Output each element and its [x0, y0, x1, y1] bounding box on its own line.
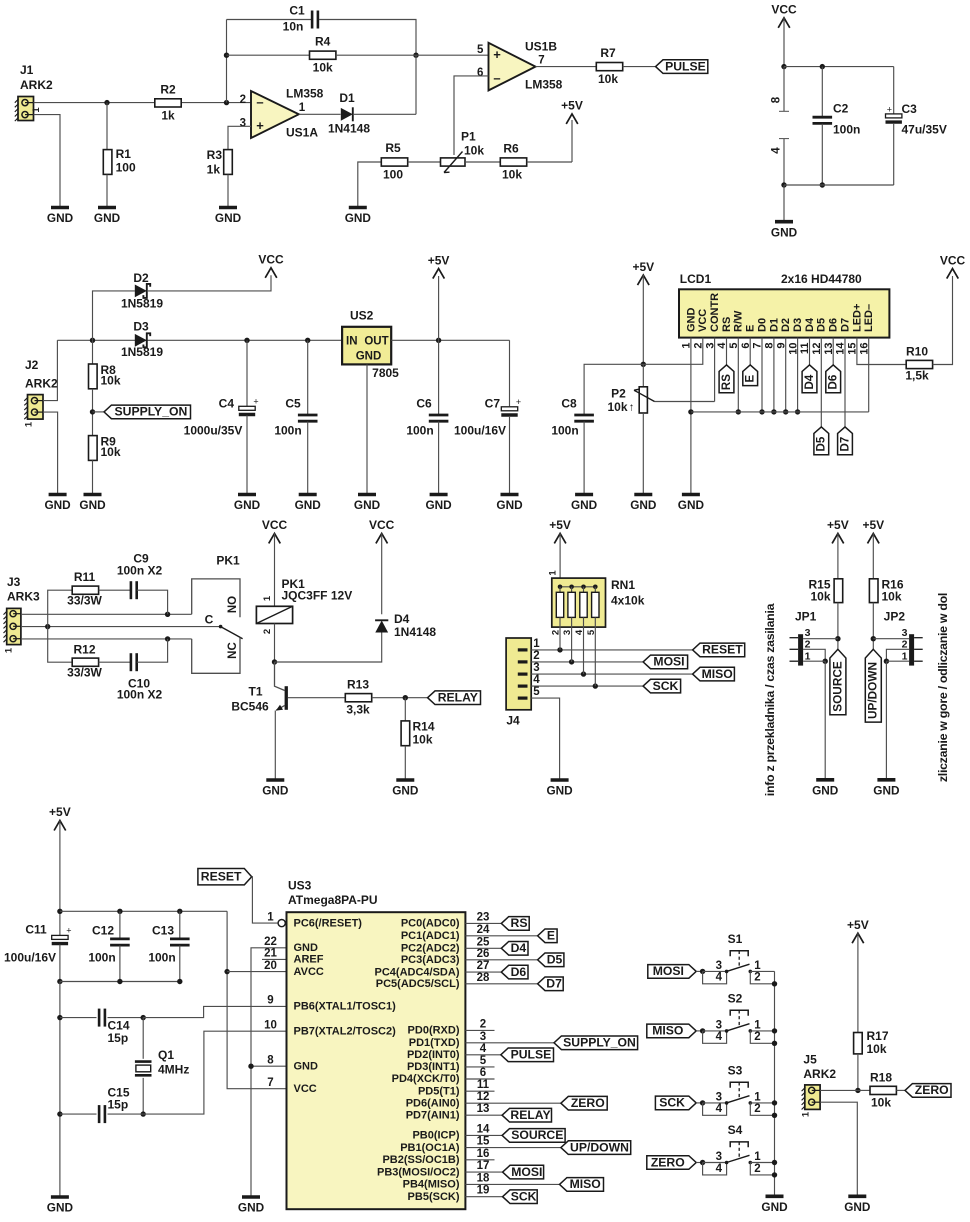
junction ZERO node — [855, 1088, 860, 1093]
ground — [238, 1197, 265, 1215]
junction R/W bus — [736, 409, 741, 414]
junction LCD VCC node — [641, 362, 646, 367]
wire pin8 segment — [783, 67, 785, 112]
wire R15 to SOURCE node — [837, 603, 839, 650]
wire LCD pin14 D7 — [844, 338, 846, 427]
svg-text:D1: D1 — [339, 91, 355, 105]
wire LCD pin7 D0 — [761, 338, 763, 412]
svg-text:LM358: LM358 — [525, 78, 563, 92]
net flag E (LCD) — [743, 365, 758, 386]
net flag RS (LCD) — [719, 365, 734, 393]
net flag D5 (MCU) — [538, 953, 564, 967]
power +5V — [561, 99, 583, 124]
svg-text:SOURCE: SOURCE — [511, 1128, 563, 1142]
junction R1 top — [104, 100, 109, 105]
junction C5 — [305, 338, 310, 343]
wire JP2 pin3 — [873, 638, 909, 640]
svg-text:2: 2 — [805, 638, 811, 650]
ground — [44, 495, 71, 513]
svg-text:1000u/35V: 1000u/35V — [184, 424, 243, 438]
power +5V (RN1) — [549, 518, 571, 543]
svg-text:15: 15 — [477, 1136, 490, 1148]
svg-text:+: + — [66, 926, 71, 936]
svg-text:27: 27 — [477, 960, 490, 972]
svg-text:1: 1 — [754, 1091, 761, 1103]
capacitor C2 — [813, 117, 833, 123]
capacitor C10 — [131, 653, 137, 671]
wire ZERO to S4 — [696, 1162, 702, 1164]
svg-text:100n X2: 100n X2 — [117, 688, 163, 702]
power VCC (D4) — [369, 518, 395, 543]
svg-text:2: 2 — [533, 650, 539, 662]
svg-text:10k: 10k — [502, 168, 522, 182]
svg-text:23: 23 — [477, 911, 490, 923]
wire R4 right — [336, 54, 416, 56]
svg-text:GND: GND — [234, 498, 261, 512]
wire RN1 r3 down — [583, 617, 585, 674]
wire left vertical to GND — [59, 982, 61, 1198]
capacitor C14 — [99, 1009, 105, 1027]
net flag UP/DOWN — [865, 649, 881, 722]
svg-text:GND: GND — [215, 211, 242, 225]
svg-text:PULSE: PULSE — [511, 1048, 552, 1062]
wire pin27 — [465, 971, 501, 973]
svg-text:VCC: VCC — [697, 309, 709, 332]
wire +5V down — [642, 275, 644, 364]
svg-text:10k: 10k — [313, 61, 333, 75]
svg-text:+5V: +5V — [827, 518, 849, 532]
junction R4 left — [224, 53, 229, 58]
svg-text:2: 2 — [262, 629, 273, 634]
connector J5 — [802, 1085, 821, 1110]
wire RN1 r1 down — [559, 617, 561, 650]
svg-text:5: 5 — [477, 44, 484, 56]
svg-text:4: 4 — [533, 674, 540, 686]
junction D1 bus — [771, 409, 776, 414]
svg-text:PD2(INT0): PD2(INT0) — [407, 1049, 460, 1061]
svg-text:GND: GND — [685, 308, 697, 333]
svg-text:GND: GND — [425, 498, 452, 512]
svg-text:5: 5 — [480, 1055, 487, 1067]
wire VCC to D4 — [381, 533, 383, 614]
wire C8 connection — [584, 364, 643, 415]
svg-text:2: 2 — [754, 1031, 760, 1043]
svg-text:PD4(XCK/T0): PD4(XCK/T0) — [392, 1073, 460, 1085]
svg-text:C13: C13 — [152, 924, 174, 938]
wire J4 pin1 RESET — [531, 649, 692, 651]
wire C12 bottom — [119, 945, 121, 981]
junction bus S2b — [772, 1041, 777, 1046]
svg-text:1: 1 — [24, 421, 35, 427]
wire J2 pin1 up to rail — [43, 340, 57, 400]
svg-text:ZERO: ZERO — [915, 1083, 949, 1097]
net flag SUPPLY_ON — [104, 405, 191, 419]
wire C13 bottom — [179, 945, 181, 981]
wire D1 to feedback — [353, 113, 416, 115]
ground — [392, 780, 419, 798]
wire R18 to ZERO — [896, 1089, 905, 1091]
relay common contact — [219, 625, 223, 629]
svg-text:2: 2 — [902, 638, 908, 650]
net flag MOSI (J4) — [643, 655, 688, 669]
wire pin19 — [465, 1196, 502, 1198]
svg-text:GND: GND — [812, 783, 839, 797]
junction XTAL2 — [141, 1111, 146, 1116]
wire C7 bottom — [509, 416, 511, 495]
junction D2 bus — [783, 409, 788, 414]
svg-text:–: – — [493, 70, 500, 85]
junction D3 bus — [795, 409, 800, 414]
junction C9 right — [165, 612, 170, 617]
ground — [546, 780, 573, 798]
svg-text:E: E — [547, 929, 555, 943]
op-amp US1A — [251, 91, 299, 138]
svg-text:1: 1 — [533, 638, 540, 650]
svg-text:C11: C11 — [25, 923, 47, 937]
svg-text:6: 6 — [477, 67, 483, 79]
ground — [94, 208, 121, 226]
svg-text:2: 2 — [240, 94, 246, 106]
wire J1 pin2 to GND — [34, 115, 61, 208]
svg-text:VCC: VCC — [262, 518, 288, 532]
svg-text:Q1: Q1 — [158, 1048, 174, 1062]
svg-text:D0: D0 — [756, 318, 768, 332]
wire RN1 r4 down — [594, 617, 596, 686]
svg-text:GND: GND — [295, 498, 322, 512]
junction C2 top — [820, 64, 825, 69]
svg-text:J4: J4 — [506, 714, 520, 728]
svg-text:SCK: SCK — [653, 679, 679, 693]
svg-text:PC0(ADC0): PC0(ADC0) — [401, 918, 460, 930]
wire LCD pin16 LED- — [868, 338, 870, 412]
svg-text:LM358: LM358 — [286, 87, 324, 101]
svg-text:↑: ↑ — [629, 401, 635, 413]
svg-text:C8: C8 — [561, 397, 577, 411]
wire R8 to R9 — [92, 389, 94, 436]
voltage regulator US2 — [342, 327, 391, 365]
power +5V — [428, 253, 450, 278]
junction bus S1 — [772, 981, 777, 986]
svg-text:3: 3 — [716, 960, 722, 972]
capacitor C9 — [131, 581, 137, 599]
svg-text:R3: R3 — [207, 148, 223, 162]
svg-text:+: + — [256, 118, 264, 133]
svg-text:GND: GND — [761, 1200, 788, 1214]
svg-text:RELAY: RELAY — [438, 691, 478, 705]
svg-text:zliczanie w gore / odliczanie: zliczanie w gore / odliczanie w dol — [936, 593, 950, 782]
junction C2 bottom — [820, 182, 825, 187]
svg-text:+5V: +5V — [49, 805, 71, 819]
wire J1 pin1 to opamp pin2 — [34, 102, 252, 104]
svg-text:9: 9 — [267, 995, 273, 1007]
svg-text:J5: J5 — [803, 1053, 817, 1067]
svg-text:7805: 7805 — [372, 366, 399, 380]
resistor R16 — [869, 579, 878, 603]
wire C15 right — [108, 1113, 144, 1115]
wire opamp output to D1 — [299, 113, 341, 115]
wire to PB7 pin10 — [143, 1031, 286, 1114]
ground — [771, 222, 798, 240]
svg-text:PC2(ADC2): PC2(ADC2) — [401, 943, 460, 955]
wire base to R13 — [288, 697, 345, 699]
svg-text:GND: GND — [294, 942, 319, 954]
svg-text:10k: 10k — [101, 445, 121, 459]
svg-text:11: 11 — [477, 1079, 490, 1091]
svg-text:+: + — [516, 397, 521, 407]
svg-text:13: 13 — [477, 1103, 490, 1115]
wire J2 pin2 to GND — [43, 412, 58, 494]
switch S4 — [703, 1142, 775, 1175]
wire C6 bottom — [438, 422, 440, 495]
svg-text:R18: R18 — [870, 1070, 892, 1084]
svg-text:22: 22 — [264, 936, 277, 948]
svg-text:R6: R6 — [503, 142, 519, 156]
ground — [354, 495, 381, 513]
relay moving arm — [221, 627, 243, 639]
svg-text:RESET: RESET — [702, 643, 743, 657]
svg-text:15p: 15p — [108, 1098, 129, 1112]
svg-text:RESET: RESET — [201, 870, 242, 884]
wire MISO to S2 — [696, 1030, 702, 1032]
svg-text:UP/DOWN: UP/DOWN — [866, 662, 880, 719]
svg-text:GND: GND — [571, 498, 598, 512]
net flag RELAY — [428, 691, 481, 705]
diode D4 — [375, 620, 388, 632]
svg-text:16: 16 — [477, 1148, 490, 1160]
wire AREF stub — [262, 958, 287, 960]
net flag E (MCU) — [538, 929, 558, 943]
svg-text:ARK2: ARK2 — [25, 377, 58, 391]
svg-text:MOSI: MOSI — [653, 655, 684, 669]
capacitor C3 — [886, 104, 902, 122]
svg-text:PB0(ICP): PB0(ICP) — [412, 1130, 459, 1142]
wire +5V vertical upper — [59, 821, 61, 936]
net flag D6 (MCU) — [501, 965, 528, 979]
resistor R2 — [155, 99, 181, 107]
svg-text:+: + — [887, 104, 892, 114]
junction R14 top — [403, 695, 408, 700]
svg-text:ARK2: ARK2 — [20, 78, 53, 92]
wire R6 to +5V — [527, 161, 572, 163]
wire C5 top — [307, 340, 309, 415]
wire LCD pin15 LED+ to R10 — [857, 338, 906, 365]
net flag D7 (LCD) — [838, 427, 853, 455]
net flag SUPPLY_ON (MCU) — [554, 1036, 638, 1050]
wire JP2 to GND — [885, 661, 887, 780]
wire C1 left — [227, 19, 312, 21]
wire R10 to VCC — [933, 276, 953, 365]
svg-text:ATmega8PA-PU: ATmega8PA-PU — [288, 893, 378, 907]
svg-text:GND: GND — [496, 498, 523, 512]
net flag RELAY (MCU) — [502, 1108, 551, 1122]
svg-text:LCD1: LCD1 — [680, 272, 712, 286]
svg-text:PB5(SCK): PB5(SCK) — [408, 1191, 460, 1203]
junction +5V riser / C6 — [436, 338, 441, 343]
svg-text:14: 14 — [477, 1123, 490, 1135]
svg-text:C2: C2 — [833, 102, 849, 116]
svg-text:3: 3 — [805, 627, 811, 639]
capacitor C4 — [239, 396, 259, 414]
svg-text:JQC3FF 12V: JQC3FF 12V — [282, 588, 353, 602]
wire J4 pin5 to GND — [531, 698, 559, 780]
ground — [873, 780, 900, 798]
svg-text:17: 17 — [477, 1160, 490, 1172]
wire GND pin22 down — [251, 948, 287, 1197]
svg-text:R1: R1 — [116, 147, 132, 161]
svg-text:D1: D1 — [768, 318, 780, 332]
junction bus S3a — [772, 1100, 777, 1105]
svg-text:S2: S2 — [728, 992, 743, 1006]
junction C15 left — [57, 1111, 62, 1116]
svg-text:+: + — [493, 47, 501, 62]
wire C3 top — [893, 67, 895, 114]
net flag PULSE — [656, 59, 708, 73]
svg-text:SCK: SCK — [511, 1190, 537, 1204]
power VCC (relay) — [262, 518, 288, 543]
ground — [496, 495, 523, 513]
wire bottom rail — [784, 184, 894, 186]
svg-text:GND: GND — [354, 498, 381, 512]
wire D2 to VCC — [147, 275, 271, 291]
svg-text:IN: IN — [346, 336, 358, 348]
switch S1 — [703, 951, 775, 984]
svg-text:D2: D2 — [780, 318, 792, 332]
svg-text:PK1: PK1 — [216, 554, 240, 568]
junction R8/D2 branch — [90, 338, 95, 343]
net flag D4 (MCU) — [501, 941, 528, 955]
svg-text:18: 18 — [477, 1172, 490, 1184]
junction AVCC — [224, 969, 229, 974]
wire +5V to VCC pin7 — [227, 911, 286, 1088]
svg-text:S4: S4 — [728, 1123, 743, 1137]
junction R4 right / opamp pin5 — [413, 53, 418, 58]
wire C3 bottom — [893, 123, 895, 185]
wire C2 top — [821, 67, 823, 117]
wire JP1 pin3 — [803, 638, 838, 640]
jumper JP2 — [909, 634, 923, 665]
wire C13 top — [179, 911, 181, 939]
junction JP2 gnd — [884, 659, 889, 664]
svg-text:1: 1 — [754, 1019, 761, 1031]
svg-text:PB6(XTAL1/TOSC1): PB6(XTAL1/TOSC1) — [294, 1001, 397, 1013]
svg-text:R4: R4 — [315, 35, 331, 49]
svg-text:1k: 1k — [207, 163, 221, 177]
svg-text:R10: R10 — [906, 345, 928, 359]
ground — [295, 495, 322, 513]
svg-text:MISO: MISO — [570, 1177, 601, 1191]
power +5V (R17) — [847, 918, 869, 943]
svg-text:3: 3 — [533, 662, 539, 674]
junction C13 top — [177, 909, 182, 914]
svg-text:D5: D5 — [816, 436, 828, 451]
svg-text:ARK2: ARK2 — [803, 1067, 836, 1081]
svg-text:T1: T1 — [248, 684, 262, 698]
svg-text:1,5k: 1,5k — [905, 369, 929, 383]
svg-text:JP2: JP2 — [884, 610, 906, 624]
svg-text:D7: D7 — [546, 977, 562, 991]
net flag MISO (to S2) — [647, 1024, 696, 1038]
svg-text:3: 3 — [902, 627, 908, 639]
wire pin12 — [465, 1102, 561, 1104]
svg-text:VCC: VCC — [294, 1083, 317, 1095]
wire coil to collector node — [274, 624, 276, 663]
svg-text:D5: D5 — [816, 318, 828, 332]
wire to D2 anode — [93, 291, 135, 340]
wire +5V top rail — [60, 910, 227, 912]
ground — [425, 495, 452, 513]
wire pin24 — [465, 935, 537, 937]
wire pin14 — [465, 1134, 502, 1136]
resistor R1 — [103, 150, 112, 175]
svg-text:5: 5 — [533, 686, 540, 698]
ground — [678, 495, 705, 513]
wire rail to R8 — [92, 340, 94, 364]
junction GND rail — [781, 182, 786, 187]
svg-text:E: E — [745, 325, 757, 332]
svg-text:VCC: VCC — [369, 518, 395, 532]
switch S3 — [703, 1082, 775, 1115]
connector J4 — [506, 638, 531, 710]
svg-text:D5: D5 — [547, 953, 563, 967]
svg-text:PD0(RXD): PD0(RXD) — [408, 1025, 460, 1037]
svg-text:P2: P2 — [611, 387, 626, 401]
svg-text:MOSI: MOSI — [653, 964, 684, 978]
wire LCD ground bus — [691, 411, 869, 413]
junction D0 bus — [759, 409, 764, 414]
wire GND pin8 — [251, 1065, 287, 1067]
svg-text:LED–: LED– — [863, 304, 875, 332]
svg-text:1: 1 — [31, 107, 42, 113]
svg-text:+5V: +5V — [632, 260, 654, 274]
wire JP2 pin1 — [886, 660, 909, 662]
capacitor C5 — [298, 415, 318, 421]
junction LCD GND bus — [688, 409, 693, 414]
svg-text:C4: C4 — [219, 397, 235, 411]
resistor R5 — [381, 158, 407, 166]
junction lower rail left — [57, 979, 62, 984]
wire C2 bottom — [821, 124, 823, 185]
svg-text:1k: 1k — [161, 109, 175, 123]
wire +5V riser — [571, 120, 573, 162]
ground — [844, 1196, 871, 1214]
junction C13 bottom — [177, 979, 182, 984]
svg-text:US3: US3 — [288, 879, 312, 893]
svg-text:12: 12 — [477, 1091, 490, 1103]
wire LCD pin3 CONTR — [714, 338, 716, 402]
svg-text:ZERO: ZERO — [571, 1096, 605, 1110]
svg-text:PB3(MOSI/OC2): PB3(MOSI/OC2) — [377, 1166, 460, 1178]
wire switch ground bus — [774, 971, 776, 1196]
svg-text:10k: 10k — [598, 72, 618, 86]
net flag RS (MCU) — [501, 916, 529, 930]
wire SCK to S3 — [696, 1102, 702, 1104]
net flag MISO (J4) — [693, 667, 735, 681]
resistor R13 — [345, 694, 371, 702]
net flag RESET (J4) — [693, 643, 745, 657]
wire US2 GND pin — [366, 364, 368, 494]
wire +5V to RN1 — [559, 533, 561, 586]
svg-text:VCC: VCC — [258, 252, 284, 266]
svg-text:2: 2 — [754, 972, 760, 984]
wire +5V to R16 — [872, 533, 874, 578]
wire decoupling lower rail — [60, 981, 181, 983]
svg-text:–: – — [256, 95, 263, 110]
svg-text:S1: S1 — [728, 932, 743, 946]
junction XTAL1 — [141, 1015, 146, 1020]
wire LCD pin13 D6 — [832, 338, 834, 365]
junction S2 left — [700, 1028, 705, 1033]
resistor R11 — [72, 586, 98, 594]
